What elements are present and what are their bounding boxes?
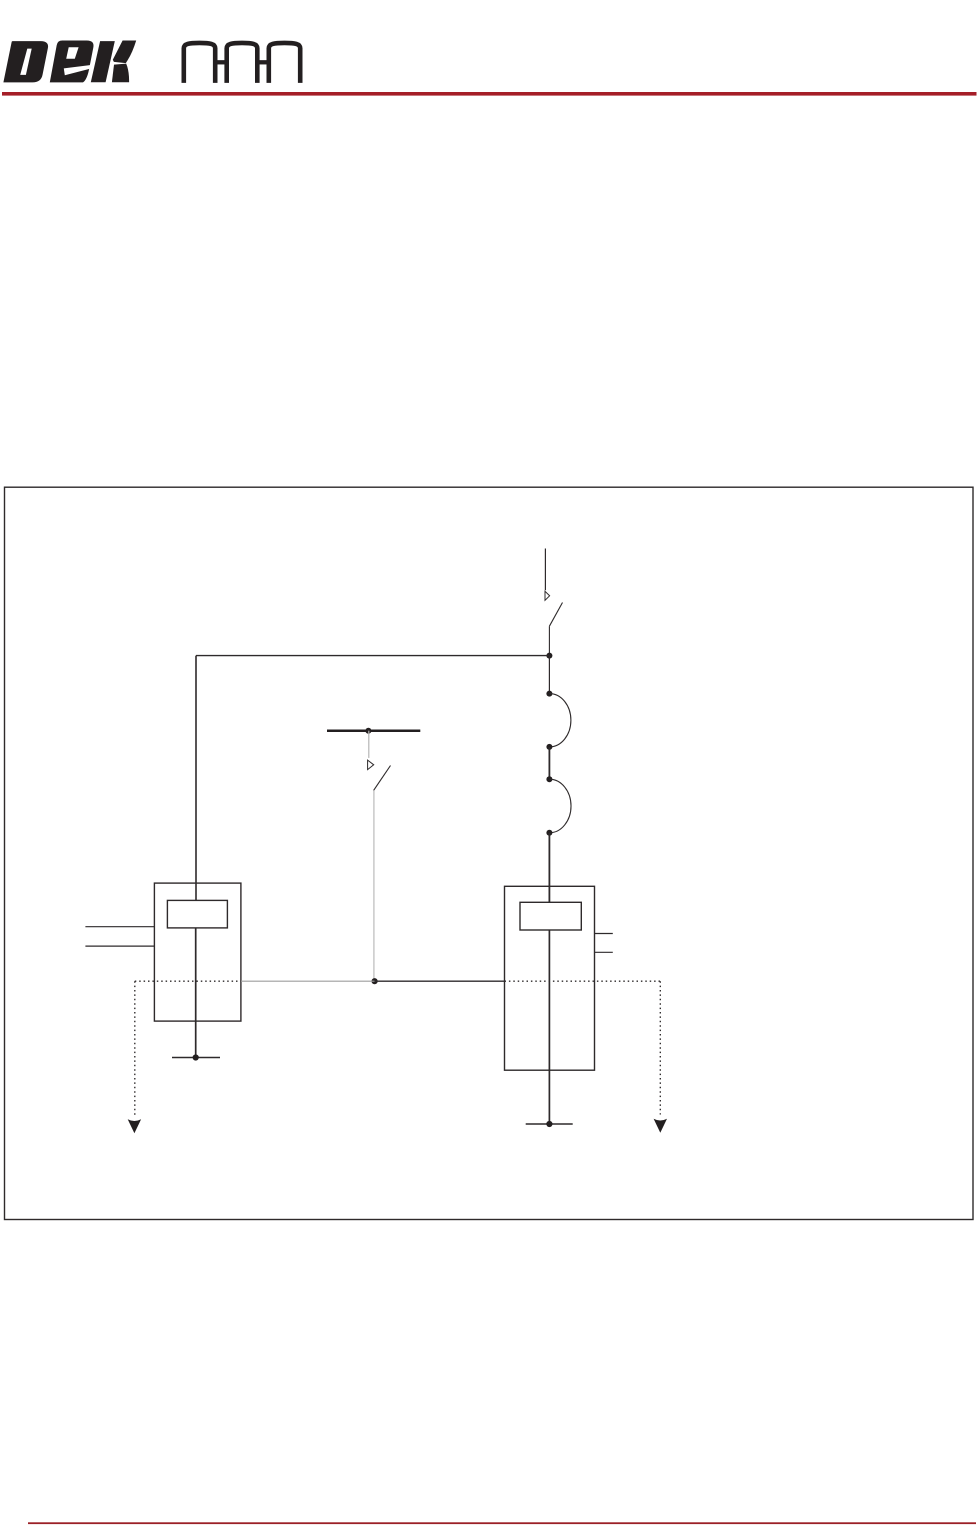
wire K2 coil to ground — [548, 930, 550, 1124]
K2 right terminal stub 2 — [595, 951, 613, 953]
arrowhead right — [654, 1119, 667, 1133]
K2 right terminal stub 1 — [595, 933, 613, 935]
disconnector S1 incoming lead — [544, 549, 546, 591]
footer red rule — [28, 1522, 976, 1524]
arches logo arch 3 — [269, 43, 300, 83]
K1 left terminal stub 1 — [85, 926, 154, 928]
dotted drop wire left — [134, 981, 136, 1117]
arches logo connector 2 — [257, 60, 269, 64]
node A junction dot — [546, 653, 552, 659]
dotted drop wire right — [659, 981, 661, 1114]
DEK logo e counter hole — [66, 47, 78, 58]
node dot L1 top — [546, 691, 552, 697]
wire S1 to node A — [548, 626, 550, 655]
wire K1 coil to ground — [195, 928, 197, 1058]
DEK logo letter D — [3, 41, 48, 82]
ground node dot K1 — [193, 1054, 199, 1060]
contactor K1 body — [154, 883, 241, 1021]
switch S2 contact triangle — [368, 760, 374, 770]
ground bar K2 — [526, 1123, 573, 1125]
switch S2 upper lead — [368, 731, 370, 758]
wire L1 to contactor K2 — [548, 833, 550, 903]
ground bar K1 — [172, 1057, 220, 1059]
arches logo arch 2 — [227, 43, 258, 83]
coil L1 winding arc 2 — [549, 779, 571, 833]
wire between windings — [548, 747, 550, 779]
DEK logo letter e — [50, 41, 94, 83]
contactor K2 body — [505, 886, 595, 1070]
wire S2 to node B — [373, 790, 375, 981]
node B junction dot — [372, 978, 378, 984]
busbar B1 — [327, 729, 420, 732]
arches logo arch 1 — [184, 43, 215, 83]
node dot on busbar B1 — [365, 728, 371, 734]
wire node A to coil L1 — [548, 656, 550, 694]
header red rule — [2, 92, 977, 96]
arches logo connector 1 — [215, 60, 227, 64]
contactor K2 coil box — [520, 902, 581, 930]
arrowhead left — [128, 1119, 141, 1133]
DEK logo letter k — [91, 41, 136, 83]
node dot L1 bottom — [546, 830, 552, 836]
wire left branch down to contactor K1 — [195, 656, 197, 901]
dotted link through K1 — [135, 980, 241, 982]
coil L1 winding arc 1 — [549, 694, 571, 747]
wire K1 to node B — [241, 980, 375, 982]
node dot L1 mid upper — [546, 744, 552, 750]
DEK logo D counter slit — [20, 49, 32, 75]
schematic frame — [5, 487, 974, 1219]
disconnector S1 contact triangle — [545, 591, 550, 600]
K1 left terminal stub 2 — [85, 945, 154, 947]
dotted link through K2 — [505, 980, 661, 982]
disconnector S1 blade — [549, 603, 562, 627]
wire node B to K2 — [375, 980, 505, 982]
DEK logo e aperture slit — [64, 65, 94, 76]
wire node A to left branch — [196, 655, 549, 657]
switch S2 blade — [374, 766, 391, 791]
contactor K1 coil box — [167, 900, 227, 928]
ground node dot K2 — [546, 1121, 552, 1127]
node dot L1 mid lower — [546, 776, 552, 782]
